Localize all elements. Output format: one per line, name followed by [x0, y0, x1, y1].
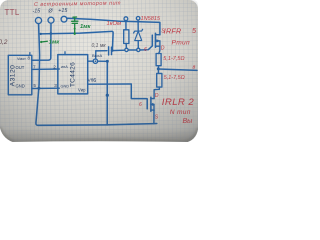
green 1uF pointer at left vertical wire [41, 40, 47, 43]
IC U1 opto driver A3120 [8, 55, 32, 95]
terminal 0 [48, 17, 54, 23]
wire: node A to resistor [125, 21, 127, 30]
wire: 0V bus horizontal [41, 31, 114, 50]
terminal -15 [35, 17, 41, 23]
resistor R1 1kOm [124, 30, 129, 44]
paper background [0, 0, 198, 143]
wire: output to right edge [158, 69, 197, 70]
wire: left vertical from -15 terminal down to bottom bus [36, 24, 107, 126]
terminal +15 [61, 16, 67, 22]
junction riser top [106, 60, 109, 63]
bottom shadow [0, 128, 198, 143]
node A circle (top of 1k resistor) [124, 17, 128, 21]
capacitor 0.1uF plates [108, 47, 110, 55]
wire: driver out B to Q2 gate [88, 84, 147, 99]
node out A circle [88, 60, 93, 62]
capacitor C green 1uF [72, 17, 78, 34]
wire: Q2 source to bottom bus [153, 110, 155, 124]
wire: node B to zener [137, 20, 139, 31]
gate rail with junction circles [125, 48, 128, 51]
wire: U1 gnd to U2 gnd [32, 87, 60, 89]
wire: R1 bottom lead [125, 44, 127, 49]
wire: Q1 drain to R2 [159, 46, 160, 53]
wire: node out A to riser [98, 60, 108, 62]
wire: node circle up to gate rail [95, 51, 97, 59]
P-MOSFET Q1 [151, 35, 153, 46]
photo light falloff [0, 0, 198, 143]
wire: U1 out to U2 in [32, 68, 60, 70]
zener diode VD1 [134, 29, 143, 33]
wire: 0 terminal stub [50, 23, 52, 33]
wire: bottom vertical riser center [106, 61, 108, 125]
wire: U1 pin8 stub [29, 53, 31, 56]
junction bus-left vertical [40, 33, 42, 35]
junction gnd wire / left vertical [37, 87, 40, 90]
photo white corners [0, 0, 8, 8]
photo corner shading [0, 127, 198, 143]
wire: bottom bus right segment [107, 124, 157, 125]
N-MOSFET Q2 [154, 87, 159, 99]
resistor R2 [156, 54, 161, 66]
junction riser mid [106, 94, 109, 97]
node B circle (top of zener) [136, 17, 140, 21]
wire: gate rail [96, 50, 107, 52]
wire: +15 top rail to P-MOSFET source [67, 18, 160, 34]
wire: bus down to driver pin1 [32, 34, 51, 61]
junction mid node [157, 67, 160, 70]
junction C2-bus [50, 32, 53, 35]
wire: U2 pin1 stub [64, 52, 66, 55]
resistor R3 [157, 73, 162, 87]
junction bus-rail [111, 49, 114, 52]
wire: mid node leads [157, 66, 159, 74]
IC U2 driver TC4426 [58, 55, 88, 94]
